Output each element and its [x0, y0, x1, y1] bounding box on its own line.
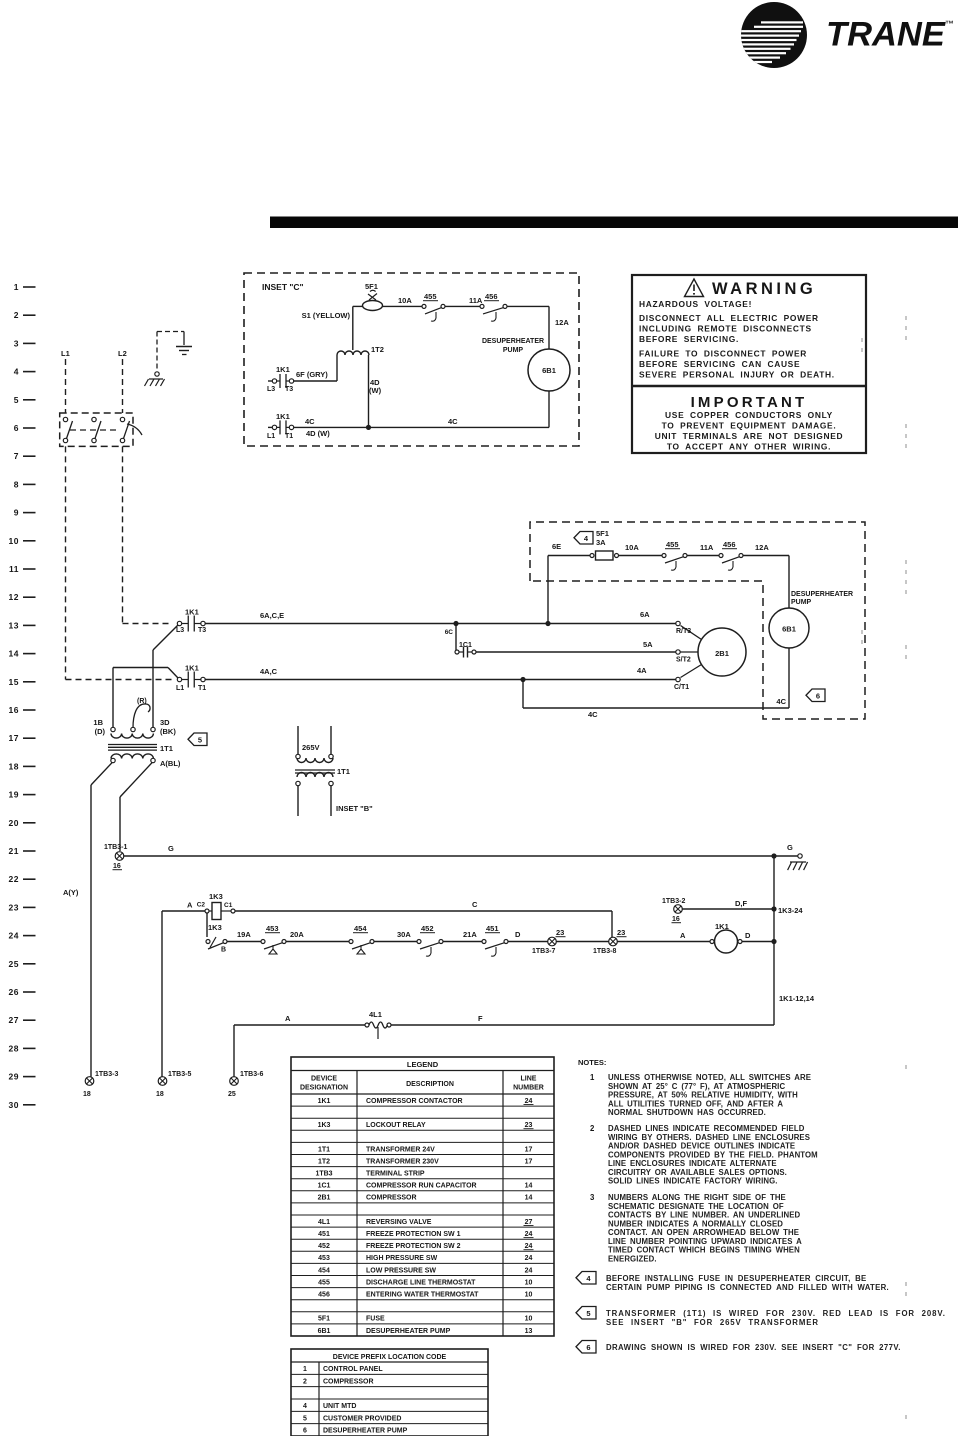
svg-text:USE COPPER CONDUCTORS ONLY: USE COPPER CONDUCTORS ONLY — [665, 410, 833, 420]
freeze protection switch 451 — [482, 940, 486, 944]
right bus wire — [773, 856, 775, 1025]
svg-text:ALL UTILITIES TURNED OFF, AND: ALL UTILITIES TURNED OFF, AND AFTER A — [608, 1099, 783, 1108]
svg-text:4L1: 4L1 — [369, 1010, 382, 1019]
svg-text:4A,C: 4A,C — [260, 667, 278, 676]
earth ground symbol — [183, 332, 185, 346]
svg-text:20: 20 — [9, 818, 19, 828]
svg-text:30: 30 — [9, 1100, 19, 1110]
svg-text:NORMAL SHUTDOWN HAS OCCURRED.: NORMAL SHUTDOWN HAS OCCURRED. — [608, 1108, 766, 1117]
svg-text:4D (W): 4D (W) — [306, 429, 330, 438]
svg-text:TO ACCEPT ANY OTHER WIRING.: TO ACCEPT ANY OTHER WIRING. — [667, 442, 831, 452]
svg-text:6E: 6E — [552, 542, 561, 551]
svg-text:16: 16 — [113, 863, 121, 870]
svg-text:NUMBER: NUMBER — [513, 1085, 544, 1092]
wire 4C bottom run — [522, 680, 524, 709]
inset B transformer leads — [297, 726, 299, 754]
svg-text:A: A — [285, 1014, 291, 1023]
contactor contact 1K1 L3/T3 (inset) — [268, 380, 272, 382]
svg-text:21: 21 — [9, 846, 19, 856]
wire L1 dashed drop — [65, 359, 67, 413]
svg-text:3D: 3D — [160, 718, 170, 727]
svg-text:11A: 11A — [700, 543, 714, 552]
wire 12A drop to pump — [548, 306, 550, 349]
svg-text:456: 456 — [485, 292, 498, 301]
svg-text:FREEZE PROTECTION SW 1: FREEZE PROTECTION SW 1 — [366, 1231, 461, 1238]
svg-text:TIMED CONTACT WHICH BEGINS TIM: TIMED CONTACT WHICH BEGINS TIMING WHEN — [608, 1246, 800, 1255]
svg-text:11A: 11A — [469, 296, 483, 305]
svg-text:24: 24 — [525, 1231, 533, 1238]
svg-text:10A: 10A — [398, 296, 412, 305]
wire 5A — [476, 651, 676, 653]
wire 4A,C (line 15) — [203, 679, 676, 681]
ground stub G — [774, 855, 798, 857]
transformer 1T1 secondary taps — [111, 758, 115, 762]
svg-text:1T2: 1T2 — [318, 1158, 330, 1165]
svg-text:UNIT MTD: UNIT MTD — [323, 1403, 356, 1410]
svg-text:1K3: 1K3 — [208, 923, 222, 932]
svg-text:ENTERING WATER THERMOSTAT: ENTERING WATER THERMOSTAT — [366, 1292, 479, 1299]
svg-text:16: 16 — [9, 705, 19, 715]
svg-text:CONTACTS BY LINE NUMBER. AN UN: CONTACTS BY LINE NUMBER. AN UNDERLINED — [608, 1211, 801, 1220]
svg-text:2: 2 — [590, 1124, 595, 1133]
terminal 1TB3-8 — [609, 937, 618, 946]
desuperheater pump 6B1 — [769, 608, 809, 648]
wire L1 dashed to line 15 — [65, 446, 67, 679]
warning body text — [639, 299, 835, 380]
svg-text:DESUPERHEATER: DESUPERHEATER — [791, 591, 853, 598]
svg-text:2B1: 2B1 — [318, 1195, 331, 1202]
svg-text:1: 1 — [590, 1073, 595, 1082]
wire secondary right to 1TB3-1 — [120, 763, 152, 797]
svg-text:6: 6 — [586, 1343, 590, 1352]
svg-text:1T1: 1T1 — [318, 1146, 330, 1153]
svg-text:TO PREVENT EQUIPMENT DAMAGE.: TO PREVENT EQUIPMENT DAMAGE. — [662, 421, 837, 431]
svg-text:BEFORE INSTALLING FUSE IN DESU: BEFORE INSTALLING FUSE IN DESUPERHEATER … — [606, 1274, 867, 1283]
svg-text:INSET "B": INSET "B" — [336, 804, 373, 813]
svg-text:4C: 4C — [588, 710, 598, 719]
svg-text:13: 13 — [9, 620, 19, 630]
svg-text:6F (GRY): 6F (GRY) — [296, 370, 328, 379]
svg-text:4A: 4A — [637, 666, 647, 675]
note tag 5 at 1T1 — [188, 733, 207, 746]
svg-text:G: G — [787, 843, 793, 852]
contactor contact 1K1 L1/T1 (line 15) — [177, 677, 181, 681]
svg-text:2: 2 — [14, 310, 19, 320]
junction 6E — [545, 621, 550, 626]
black header bar — [270, 217, 958, 229]
svg-text:5: 5 — [14, 395, 19, 405]
svg-text:10: 10 — [525, 1279, 533, 1286]
svg-text:LINE ENCLOSURES INDICATE ALTER: LINE ENCLOSURES INDICATE ALTERNATE — [608, 1159, 777, 1168]
svg-text:CIRCUITRY OR AVAILABLE SALES O: CIRCUITRY OR AVAILABLE SALES OPTIONS. — [608, 1168, 787, 1177]
svg-text:1K3: 1K3 — [209, 892, 223, 901]
svg-text:23: 23 — [556, 928, 564, 937]
junction 4C — [520, 677, 525, 682]
wire G (line 21) — [124, 855, 774, 857]
svg-text:R/T3: R/T3 — [676, 628, 691, 635]
svg-text:DEVICE PREFIX LOCATION CODE: DEVICE PREFIX LOCATION CODE — [333, 1354, 447, 1361]
svg-text:FREEZE PROTECTION SW 2: FREEZE PROTECTION SW 2 — [366, 1243, 461, 1250]
wire S1 vertical to 1T2 — [352, 306, 354, 350]
svg-text:1: 1 — [14, 282, 19, 292]
svg-text:T3: T3 — [198, 627, 206, 634]
svg-text:IMPORTANT: IMPORTANT — [691, 394, 808, 411]
note tag 6 text — [576, 1341, 596, 1354]
inset B transformer 1T1 — [296, 754, 300, 758]
svg-text:COMPRESSOR CONTACTOR: COMPRESSOR CONTACTOR — [366, 1098, 463, 1105]
svg-text:1K3-24: 1K3-24 — [778, 906, 803, 915]
svg-text:C1: C1 — [224, 902, 233, 909]
svg-text:AND/OR DASHED DEVICE OUTLINES: AND/OR DASHED DEVICE OUTLINES INDICATE — [608, 1142, 795, 1151]
svg-text:UNLESS OTHERWISE NOTED, ALL SW: UNLESS OTHERWISE NOTED, ALL SWITCHES ARE — [608, 1073, 811, 1082]
svg-text:24: 24 — [525, 1267, 533, 1274]
svg-text:DISCONNECT ALL ELECTRIC POWER: DISCONNECT ALL ELECTRIC POWER — [639, 313, 819, 323]
svg-text:C: C — [472, 900, 478, 909]
svg-text:FUSE: FUSE — [366, 1316, 385, 1323]
svg-text:3: 3 — [14, 338, 19, 348]
svg-text:455: 455 — [318, 1279, 330, 1286]
svg-text:6B1: 6B1 — [782, 625, 796, 634]
wire inset top (line 10) — [353, 305, 363, 307]
svg-text:1K1: 1K1 — [276, 365, 290, 374]
svg-text:S1 (YELLOW): S1 (YELLOW) — [302, 311, 351, 320]
wire C2 drop — [206, 913, 208, 937]
svg-text:18: 18 — [83, 1091, 91, 1098]
svg-text:18: 18 — [9, 761, 19, 771]
wire 6A,C,E (line 13) — [203, 623, 676, 625]
svg-text:1K1: 1K1 — [185, 608, 199, 617]
svg-text:A: A — [680, 931, 686, 940]
svg-text:SEVERE PERSONAL INJURY OR DEAT: SEVERE PERSONAL INJURY OR DEATH. — [639, 370, 835, 380]
svg-text:451: 451 — [486, 924, 499, 933]
svg-text:COMPRESSOR RUN CAPACITOR: COMPRESSOR RUN CAPACITOR — [366, 1183, 477, 1190]
svg-text:1TB3: 1TB3 — [315, 1171, 332, 1178]
svg-text:4L1: 4L1 — [318, 1219, 330, 1226]
terminal 1TB3-2 — [674, 905, 683, 914]
svg-text:HIGH PRESSURE SW: HIGH PRESSURE SW — [366, 1255, 438, 1262]
svg-text:T1: T1 — [285, 433, 293, 440]
svg-text:5: 5 — [586, 1309, 590, 1318]
junction coil bus — [771, 939, 776, 944]
svg-text:19: 19 — [9, 790, 19, 800]
svg-text:UNIT TERMINALS ARE NOT DESIGNE: UNIT TERMINALS ARE NOT DESIGNED — [655, 431, 844, 441]
wire 6E riser — [547, 556, 549, 624]
svg-text:L1: L1 — [61, 349, 70, 358]
svg-text:2: 2 — [303, 1378, 307, 1385]
svg-text:453: 453 — [266, 924, 279, 933]
svg-text:™: ™ — [945, 19, 954, 29]
transformer 1T1 windings — [111, 734, 153, 739]
svg-text:3: 3 — [590, 1193, 595, 1202]
svg-text:30A: 30A — [397, 930, 411, 939]
svg-text:27: 27 — [525, 1219, 533, 1226]
svg-text:3A: 3A — [596, 538, 606, 547]
svg-text:14: 14 — [9, 649, 19, 659]
freeze protection switch 452 — [417, 940, 421, 944]
svg-text:ENERGIZED.: ENERGIZED. — [608, 1254, 657, 1263]
wire inset bottom 4C — [294, 426, 549, 428]
svg-text:12: 12 — [9, 592, 19, 602]
wire A(Y) secondary left — [91, 763, 112, 785]
svg-text:1C1: 1C1 — [459, 642, 472, 649]
svg-text:C2: C2 — [197, 902, 206, 909]
svg-text:A: A — [187, 901, 193, 910]
svg-text:5: 5 — [303, 1415, 307, 1422]
svg-text:S/T2: S/T2 — [676, 657, 691, 664]
svg-text:CONTACT. AN OPEN ARROWHEAD BEL: CONTACT. AN OPEN ARROWHEAD BELOW THE — [608, 1228, 799, 1237]
wire to 455 — [619, 555, 665, 557]
svg-text:6: 6 — [14, 423, 19, 433]
chassis ground (right) — [788, 862, 808, 870]
svg-text:DRAWING SHOWN IS WIRED FOR 230: DRAWING SHOWN IS WIRED FOR 230V. SEE INS… — [606, 1343, 901, 1352]
svg-text:454: 454 — [354, 924, 367, 933]
svg-text:28: 28 — [9, 1043, 19, 1053]
wire to 456 — [687, 555, 721, 557]
thermostat switch 456 (inset) — [480, 304, 484, 308]
svg-text:(R): (R) — [137, 698, 147, 705]
svg-text:PRESSURE, AT 50% RELATIVE HUMI: PRESSURE, AT 50% RELATIVE HUMIDITY, WITH — [608, 1091, 798, 1100]
legend table — [291, 1057, 554, 1336]
svg-text:5A: 5A — [643, 640, 653, 649]
Trane logo circle — [741, 2, 807, 68]
svg-text:L1: L1 — [267, 433, 275, 440]
svg-text:16: 16 — [672, 916, 680, 923]
svg-text:LOW PRESSURE SW: LOW PRESSURE SW — [366, 1267, 436, 1274]
svg-text:6: 6 — [303, 1428, 307, 1435]
svg-text:14: 14 — [525, 1195, 533, 1202]
svg-text:5F1: 5F1 — [596, 529, 609, 538]
svg-text:23: 23 — [617, 928, 625, 937]
svg-text:REVERSING VALVE: REVERSING VALVE — [366, 1219, 432, 1226]
svg-text:(W): (W) — [369, 386, 382, 395]
svg-text:COMPONENTS PROVIDED BY THE FIE: COMPONENTS PROVIDED BY THE FIELD. PHANTO… — [608, 1150, 818, 1159]
line number ruler 1-30 — [9, 282, 36, 1110]
svg-text:6C: 6C — [445, 629, 454, 636]
autotransformer 1T2 — [337, 351, 369, 355]
svg-text:455: 455 — [666, 540, 679, 549]
svg-text:29: 29 — [9, 1072, 19, 1082]
svg-text:TRANSFORMER 230V: TRANSFORMER 230V — [366, 1158, 439, 1165]
wire to 451 — [443, 941, 484, 943]
wire C to 1TB3-8 — [235, 910, 612, 912]
svg-text:2B1: 2B1 — [715, 649, 729, 658]
svg-text:6: 6 — [816, 692, 820, 701]
svg-text:6B1: 6B1 — [318, 1328, 331, 1335]
svg-text:1: 1 — [303, 1366, 307, 1373]
warning divider — [632, 385, 866, 388]
device prefix location table — [291, 1349, 488, 1436]
junction 6C — [453, 621, 458, 626]
svg-text:TRANSFORMER 24V: TRANSFORMER 24V — [366, 1146, 435, 1153]
svg-text:WIRING BY OTHERS. DASHED LINE: WIRING BY OTHERS. DASHED LINE ENCLOSURES — [608, 1133, 810, 1142]
svg-text:456: 456 — [318, 1292, 330, 1299]
svg-text:23: 23 — [525, 1122, 533, 1129]
wire pump to 4C (inset) — [548, 391, 550, 427]
svg-text:DESUPERHEATER PUMP: DESUPERHEATER PUMP — [366, 1328, 451, 1335]
svg-text:INCLUDING REMOTE DISCONNECTS: INCLUDING REMOTE DISCONNECTS — [639, 324, 812, 334]
wire 1T2 left leg to T3 — [336, 355, 338, 381]
svg-text:LINE NUMBER POINTING UPWARD IN: LINE NUMBER POINTING UPWARD INDICATES A — [608, 1237, 802, 1246]
svg-text:10A: 10A — [625, 543, 639, 552]
wire L2 dashed to line 13 — [122, 446, 124, 623]
note tag 6 — [806, 689, 825, 702]
svg-text:TRANE: TRANE — [826, 16, 946, 54]
compressor terminal R/T3 — [676, 621, 680, 625]
svg-text:15: 15 — [9, 677, 19, 687]
warning triangle icon — [685, 279, 704, 297]
svg-text:1TB3-5: 1TB3-5 — [168, 1071, 191, 1078]
svg-text:1K1: 1K1 — [318, 1098, 331, 1105]
svg-text:8: 8 — [14, 479, 19, 489]
svg-text:T1: T1 — [198, 685, 206, 692]
disconnect pole 1 — [63, 417, 67, 421]
svg-text:TRANSFORMER (1T1) IS WIRED FOR: TRANSFORMER (1T1) IS WIRED FOR 230V. RED… — [606, 1309, 946, 1318]
svg-text:451: 451 — [318, 1231, 330, 1238]
junction G bus — [771, 853, 776, 858]
terminal 1TB3-7 — [548, 937, 557, 946]
svg-text:SOLID LINES INDICATE FACTORY W: SOLID LINES INDICATE FACTORY WIRING. — [608, 1177, 778, 1186]
disconnect handle — [127, 424, 142, 435]
svg-text:10: 10 — [9, 536, 19, 546]
note tag 5 text — [576, 1307, 596, 1320]
wire L2 dashed drop — [122, 359, 124, 413]
thermostat switch 456 — [719, 554, 723, 558]
thermostat switch 455 (inset) — [422, 304, 426, 308]
svg-text:A(Y): A(Y) — [63, 888, 79, 897]
junction 1K3-24 — [771, 906, 776, 911]
svg-text:1K1: 1K1 — [276, 412, 290, 421]
svg-text:19A: 19A — [237, 930, 251, 939]
wire 3D diagonal — [153, 625, 178, 650]
svg-text:1TB3-2: 1TB3-2 — [662, 898, 685, 905]
svg-text:1TB3-1: 1TB3-1 — [104, 844, 127, 851]
svg-text:FAILURE TO DISCONNECT POWER: FAILURE TO DISCONNECT POWER — [639, 349, 807, 359]
svg-text:BEFORE SERVICING CAN CAUSE: BEFORE SERVICING CAN CAUSE — [639, 359, 800, 369]
svg-text:454: 454 — [318, 1267, 330, 1274]
disconnect pole 3 — [120, 417, 124, 421]
svg-text:17: 17 — [9, 733, 19, 743]
wire F to bus — [391, 1024, 774, 1026]
wire to 452 — [374, 941, 419, 943]
svg-text:24: 24 — [525, 1098, 533, 1105]
terminal 1TB3-6 — [230, 1077, 239, 1086]
svg-text:10: 10 — [525, 1316, 533, 1323]
svg-text:4: 4 — [303, 1403, 307, 1410]
svg-text:PUMP: PUMP — [791, 599, 812, 606]
svg-text:4C: 4C — [448, 417, 458, 426]
compressor 2B1 — [698, 628, 746, 676]
svg-text:456: 456 — [723, 540, 736, 549]
svg-text:17: 17 — [525, 1146, 533, 1153]
svg-text:COMPRESSOR: COMPRESSOR — [366, 1195, 417, 1202]
svg-text:7: 7 — [14, 451, 19, 461]
svg-text:27: 27 — [9, 1015, 19, 1025]
svg-text:NUMBERS ALONG THE RIGHT SIDE O: NUMBERS ALONG THE RIGHT SIDE OF THE — [608, 1193, 786, 1202]
svg-text:T3: T3 — [285, 386, 293, 393]
svg-text:L2: L2 — [118, 349, 127, 358]
svg-text:A(BL): A(BL) — [160, 759, 181, 768]
low pressure switch 454 — [349, 940, 353, 944]
svg-text:C/T1: C/T1 — [674, 684, 689, 691]
svg-text:LEGEND: LEGEND — [407, 1060, 439, 1069]
svg-text:SEE INSERT "B" FOR 265V TRANSF: SEE INSERT "B" FOR 265V TRANSFORMER — [606, 1318, 819, 1327]
chassis ground terminal — [155, 372, 159, 376]
svg-text:NUMBER INDICATES A NORMALLY CL: NUMBER INDICATES A NORMALLY CLOSED — [608, 1219, 783, 1228]
svg-text:DESIGNATION: DESIGNATION — [300, 1085, 348, 1092]
svg-text:(D): (D) — [95, 727, 106, 736]
svg-text:10: 10 — [525, 1292, 533, 1299]
disconnect linkage — [70, 429, 118, 431]
svg-text:D: D — [745, 931, 751, 940]
svg-text:D,F: D,F — [735, 899, 748, 908]
svg-text:20A: 20A — [290, 930, 304, 939]
inset B secondary taps — [296, 781, 300, 785]
svg-text:24: 24 — [525, 1255, 533, 1262]
svg-text:1TB3-6: 1TB3-6 — [240, 1071, 263, 1078]
svg-text:DISCHARGE LINE THERMOSTAT: DISCHARGE LINE THERMOSTAT — [366, 1279, 476, 1286]
svg-text:1K3: 1K3 — [318, 1122, 331, 1129]
svg-text:5F1: 5F1 — [365, 282, 378, 291]
svg-text:1K1: 1K1 — [185, 664, 199, 673]
svg-text:LINE: LINE — [521, 1076, 537, 1083]
svg-text:PUMP: PUMP — [503, 347, 524, 354]
lockout relay contact 1K3 (NC) — [206, 940, 210, 944]
svg-text:1TB3-7: 1TB3-7 — [532, 948, 555, 955]
wire 1T2 right leg 4D(W) — [368, 355, 370, 427]
svg-text:12A: 12A — [555, 318, 569, 327]
wire to 453 — [227, 941, 263, 943]
svg-text:455: 455 — [424, 292, 437, 301]
svg-text:F: F — [478, 1014, 483, 1023]
reversing valve solenoid 4L1 — [365, 1023, 369, 1027]
wire 1B leg — [168, 668, 178, 679]
svg-text:DESUPERHEATER PUMP: DESUPERHEATER PUMP — [323, 1428, 408, 1435]
svg-text:D: D — [515, 930, 521, 939]
disconnect pole 2 — [92, 417, 96, 421]
svg-text:DASHED LINES INDICATE RECOMMEN: DASHED LINES INDICATE RECOMMENDED FIELD — [608, 1124, 805, 1133]
svg-text:4: 4 — [14, 367, 19, 377]
svg-text:265V: 265V — [302, 743, 320, 752]
svg-text:1TB3-8: 1TB3-8 — [593, 948, 616, 955]
svg-text:DEVICE: DEVICE — [311, 1076, 337, 1083]
ground dashed stub — [157, 331, 184, 333]
wire 1TB3-6 riser — [233, 1025, 235, 1077]
svg-text:1K1-12,14: 1K1-12,14 — [779, 994, 815, 1003]
svg-text:21A: 21A — [463, 930, 477, 939]
svg-text:17: 17 — [525, 1158, 533, 1165]
wire 6C drop — [455, 624, 457, 653]
terminal 1TB3-3 — [85, 1077, 94, 1086]
wire 12A to pump — [743, 555, 789, 557]
wire A to 1K1 coil — [618, 941, 712, 943]
svg-text:(BK): (BK) — [160, 727, 176, 736]
svg-text:CERTAIN PUMP PIPING IS CONNECT: CERTAIN PUMP PIPING IS CONNECTED AND FIL… — [606, 1283, 889, 1292]
svg-text:26: 26 — [9, 987, 19, 997]
desuperheater dashed enclosure — [530, 522, 865, 719]
svg-text:4C: 4C — [776, 697, 786, 706]
wire D to 1TB3-7 — [508, 941, 548, 943]
disconnect switch enclosure — [60, 413, 133, 446]
fuse 5F1 (inset) — [363, 301, 383, 311]
svg-text:1T2: 1T2 — [371, 345, 384, 354]
svg-text:COMPRESSOR: COMPRESSOR — [323, 1378, 374, 1385]
svg-text:1B: 1B — [93, 718, 103, 727]
svg-text:453: 453 — [318, 1255, 330, 1262]
svg-text:18: 18 — [156, 1091, 164, 1098]
important body text — [655, 410, 844, 452]
svg-text:CONTROL PANEL: CONTROL PANEL — [323, 1366, 383, 1373]
svg-text:13: 13 — [525, 1328, 533, 1335]
